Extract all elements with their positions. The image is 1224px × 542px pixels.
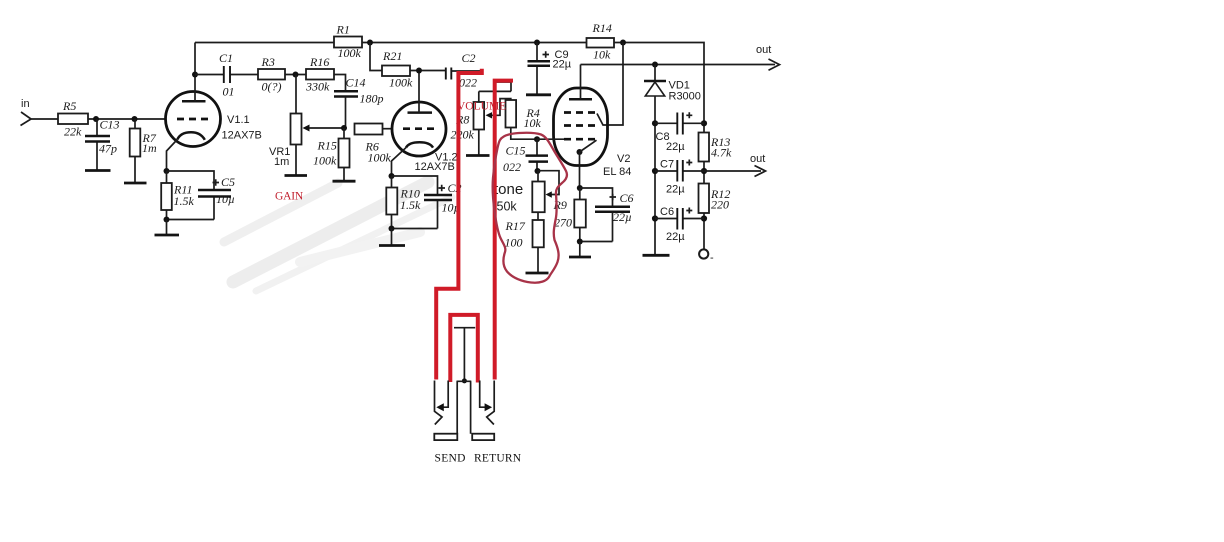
wire R4 bottom to grid junction xyxy=(511,128,537,140)
resistor R21 xyxy=(382,49,413,90)
capacitor C1 xyxy=(195,51,258,99)
wire R6 to V1.2 grid xyxy=(383,128,393,130)
svg-text:in: in xyxy=(21,98,30,110)
node C15 bottom junction xyxy=(535,168,541,174)
wire to ground xyxy=(579,242,581,257)
svg-text:220: 220 xyxy=(711,198,729,212)
svg-text:C5: C5 xyxy=(221,175,235,189)
svg-text:1.5k: 1.5k xyxy=(400,198,421,212)
V1.1 grid (dashed) xyxy=(177,118,212,121)
svg-text:22µ: 22µ xyxy=(553,59,572,71)
svg-text:R5: R5 xyxy=(62,99,76,113)
ground under C13 xyxy=(85,169,111,172)
resistor R13 xyxy=(699,133,733,162)
potentiometer tone 50k xyxy=(494,171,545,214)
resistor R1 xyxy=(334,23,362,61)
svg-text:100k: 100k xyxy=(313,154,337,168)
V1.2 cathode arc xyxy=(406,142,433,147)
svg-text:C1: C1 xyxy=(219,51,233,65)
node R9 bottom junction xyxy=(577,239,583,245)
wire B+ top rail xyxy=(195,43,704,124)
svg-text:100: 100 xyxy=(505,236,523,250)
node V1.1 cathode junction xyxy=(164,168,170,174)
node C6 left junction xyxy=(652,215,658,221)
jack SEND tip contact xyxy=(435,381,443,425)
resistor R14 xyxy=(587,21,615,62)
wire to ground xyxy=(166,220,168,235)
svg-text:1m: 1m xyxy=(142,141,157,155)
svg-text:R3: R3 xyxy=(261,55,275,69)
svg-text:12AX7B: 12AX7B xyxy=(415,161,455,173)
svg-text:1.5k: 1.5k xyxy=(174,194,195,208)
capacitor C6 (filter) xyxy=(655,206,704,243)
resistor R3 xyxy=(258,55,285,94)
wire R21 to C2 xyxy=(410,70,446,72)
svg-text:180p: 180p xyxy=(360,92,384,106)
R8 wiper arrow to R4 xyxy=(486,99,511,119)
svg-text:22µ: 22µ xyxy=(613,210,632,224)
node R21/C2/plate junction xyxy=(416,68,422,74)
svg-text:C6: C6 xyxy=(660,206,674,218)
svg-text:R14: R14 xyxy=(592,21,612,35)
capacitor C2 (coupling) xyxy=(446,51,477,90)
wire V2 grid1 entry xyxy=(537,138,564,140)
jack RETURN tip contact xyxy=(487,381,495,425)
resistor R7 xyxy=(130,119,157,183)
node C8 right junction xyxy=(701,120,707,126)
svg-text:V2: V2 xyxy=(617,153,630,165)
wire V2 plate riser xyxy=(580,65,582,100)
svg-text:12AX7B: 12AX7B xyxy=(222,130,262,142)
capacitor C14 xyxy=(334,76,384,129)
wire return path to volume top xyxy=(479,82,511,102)
svg-text:EL 84: EL 84 xyxy=(603,166,631,178)
resistor R4 xyxy=(506,100,542,130)
node C8 left junction xyxy=(652,120,658,126)
ground under R15 xyxy=(333,180,356,183)
svg-text:22µ: 22µ xyxy=(666,141,685,153)
resistor R5 xyxy=(58,99,88,139)
svg-text:R15: R15 xyxy=(317,139,337,153)
V1.2 plate bar xyxy=(408,111,433,114)
wire screen supply drop to V2 g2 xyxy=(597,43,623,126)
svg-text:10µ: 10µ xyxy=(216,192,235,206)
svg-text:1m: 1m xyxy=(274,156,289,168)
ground under R10 xyxy=(379,244,405,247)
ground under R9 xyxy=(569,256,591,259)
red wire send (from C2) xyxy=(436,69,482,380)
resistor R6 xyxy=(355,124,392,165)
ground under R11 xyxy=(155,234,180,237)
svg-text:R17: R17 xyxy=(505,219,526,233)
node R3/R16/VR1 junction xyxy=(293,72,299,78)
V2 grids (dashed) xyxy=(564,113,597,140)
red wire return (to volume) xyxy=(495,81,513,380)
svg-text:R9: R9 xyxy=(553,198,567,212)
svg-text:47p: 47p xyxy=(99,142,117,156)
svg-text:out: out xyxy=(750,153,765,165)
resistor R15 xyxy=(313,128,350,181)
capacitor C9 xyxy=(528,43,572,95)
svg-text:R1: R1 xyxy=(336,23,350,37)
wire out lower xyxy=(704,170,761,172)
node C1 tap junction xyxy=(192,72,198,78)
wire plate out line xyxy=(581,64,776,66)
resistor R17 xyxy=(505,212,544,249)
red wire jack normalling link xyxy=(450,315,478,383)
ground under R8 xyxy=(466,154,490,157)
wire R8 bottom to ground xyxy=(478,130,480,156)
node VD1 junction xyxy=(652,62,658,68)
jack RETURN sleeve foot xyxy=(472,434,494,440)
capacitor C8 xyxy=(655,112,704,153)
triode V1.1 xyxy=(166,92,262,147)
node VR1 wiper junction xyxy=(341,125,347,131)
svg-text:22µ: 22µ xyxy=(666,184,685,196)
svg-text:C2: C2 xyxy=(462,51,476,65)
svg-text:0(?): 0(?) xyxy=(262,80,282,94)
resistor R11 xyxy=(161,171,194,220)
wire R3 to R16 xyxy=(285,74,306,76)
node out (upper) arrow xyxy=(756,44,780,70)
wire C2 output (cut by loop) xyxy=(451,70,481,72)
svg-text:22k: 22k xyxy=(64,125,82,139)
node junction R7 xyxy=(132,116,138,122)
svg-text:330k: 330k xyxy=(305,80,330,94)
resistor R16 xyxy=(305,55,334,94)
svg-text:-: - xyxy=(710,252,714,264)
capacitor C13 xyxy=(85,118,120,171)
wire filter left rail xyxy=(654,123,656,254)
svg-text:01: 01 xyxy=(223,85,235,99)
svg-text:10k: 10k xyxy=(593,48,611,62)
node V2 cathode junction xyxy=(577,185,583,191)
svg-text:100k: 100k xyxy=(368,151,392,165)
resistor R10 xyxy=(386,176,421,229)
jack SEND switch contact xyxy=(436,381,448,412)
V2 plate bar xyxy=(569,98,592,101)
node V2 grid junction xyxy=(534,136,540,142)
svg-text:R21: R21 xyxy=(382,49,402,63)
svg-text:out: out xyxy=(756,44,771,56)
wire V1.2 cathode lead xyxy=(392,148,407,176)
ground bar under C9 xyxy=(526,93,551,96)
svg-text:V1.1: V1.1 xyxy=(227,114,250,126)
node junction C13 xyxy=(93,116,99,122)
svg-text:C6: C6 xyxy=(620,191,634,205)
node output terminal xyxy=(699,249,714,264)
wire R5 to V1.1 grid xyxy=(88,118,167,120)
svg-text:tone: tone xyxy=(494,181,523,198)
svg-text:R3000: R3000 xyxy=(669,91,701,103)
resistor R12 xyxy=(699,184,731,214)
tone pot wiper loop xyxy=(538,171,560,198)
potentiometer VR1 xyxy=(269,75,302,176)
jack SEND sleeve foot xyxy=(434,434,457,440)
ground (jack sleeves, chassis T) xyxy=(454,328,475,381)
svg-text:R16: R16 xyxy=(309,55,329,69)
svg-text:SEND: SEND xyxy=(435,453,466,465)
V1.2 grid (dashed) xyxy=(403,127,437,130)
ground under VR1 xyxy=(285,174,308,177)
ground under filter rail xyxy=(643,254,670,257)
V2 cathode xyxy=(577,140,597,188)
resistor R9 xyxy=(553,188,586,242)
pentode V2 xyxy=(554,88,632,178)
wire jack common frame xyxy=(457,381,472,433)
node C7 left junction xyxy=(652,168,658,174)
wire R17 to ground xyxy=(537,247,539,272)
node R21 drop junction xyxy=(367,40,373,46)
svg-text:C7: C7 xyxy=(660,159,674,171)
svg-text:022: 022 xyxy=(459,76,477,90)
node R10 bottom junction xyxy=(389,226,395,232)
wire input to R5 xyxy=(31,118,58,120)
node V1.2 cathode junction xyxy=(389,173,395,179)
svg-text:22µ: 22µ xyxy=(666,231,685,243)
VR1 wiper arrow xyxy=(303,125,345,132)
triode V1.2 xyxy=(392,102,458,173)
wire V1.2 plate riser xyxy=(418,71,420,113)
svg-text:4.7k: 4.7k xyxy=(711,146,732,160)
svg-text:VOLUME: VOLUME xyxy=(457,101,506,113)
svg-text:C15: C15 xyxy=(506,144,526,158)
V1.1 plate bar xyxy=(182,100,206,103)
potentiometer R8 (volume) xyxy=(451,102,485,142)
svg-text:RETURN: RETURN xyxy=(474,453,522,465)
node out (lower) arrow xyxy=(750,153,766,177)
node jack common junction xyxy=(462,378,467,383)
node C9 junction xyxy=(534,40,540,46)
capacitor C6 (cathode bypass) xyxy=(580,188,634,242)
jack RETURN switch contact xyxy=(480,381,492,412)
capacitor C15 xyxy=(503,139,548,174)
node R11 bottom junction xyxy=(164,217,170,223)
dark red loop around tone network xyxy=(493,133,567,283)
svg-text:10k: 10k xyxy=(524,116,542,130)
wire R16 to C14 xyxy=(334,75,346,92)
capacitor C2 (cathode bypass) xyxy=(392,176,462,229)
ground under R17 xyxy=(526,272,549,275)
wire V1.1 cathode lead xyxy=(167,140,178,172)
svg-text:220k: 220k xyxy=(451,128,475,142)
svg-text:100k: 100k xyxy=(338,46,362,60)
node in (input) xyxy=(21,98,32,126)
node C6 right junction xyxy=(701,215,707,221)
node screen drop junction xyxy=(620,40,626,46)
svg-text:C14: C14 xyxy=(346,76,366,90)
V1.1 cathode arc xyxy=(177,132,205,140)
capacitor C5 xyxy=(167,171,236,220)
wire drop to R21 xyxy=(370,43,382,71)
svg-text:022: 022 xyxy=(503,160,521,174)
diode VD1 xyxy=(644,65,701,124)
ground under R7 xyxy=(124,182,147,185)
svg-text:C13: C13 xyxy=(100,118,120,132)
node C7 right junction xyxy=(701,168,707,174)
wire to ground xyxy=(391,229,393,246)
capacitor C7 xyxy=(655,159,704,196)
svg-text:GAIN: GAIN xyxy=(275,191,304,203)
wire filter right rail xyxy=(703,123,705,249)
wire V1.1 plate riser to B+ rail xyxy=(194,43,196,102)
svg-text:50k: 50k xyxy=(497,200,518,214)
svg-text:100k: 100k xyxy=(389,76,413,90)
